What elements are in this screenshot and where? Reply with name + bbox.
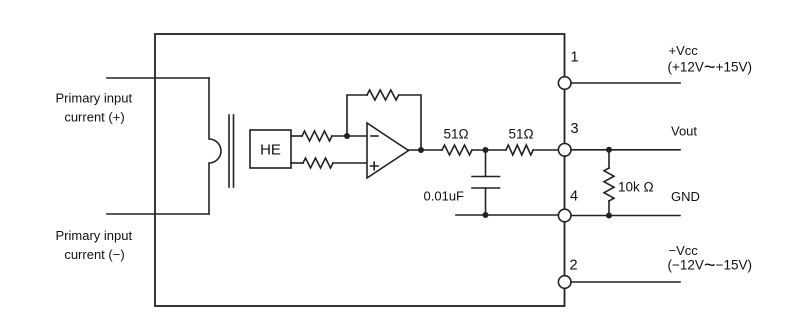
svg-text:+Vcc: +Vcc xyxy=(669,43,699,58)
resistor R6 10k xyxy=(604,168,614,201)
svg-text:1: 1 xyxy=(571,50,579,66)
node E junction xyxy=(606,147,612,153)
resistor R5 51ohm xyxy=(506,145,533,155)
module outline box xyxy=(155,34,565,306)
pin 4 terminal xyxy=(558,209,571,222)
resistor R2 xyxy=(302,131,332,141)
node B junction xyxy=(418,147,424,153)
wire -Vcc xyxy=(571,281,680,283)
svg-text:GND: GND xyxy=(671,189,700,204)
svg-text:Vout: Vout xyxy=(671,124,697,139)
wire feedback left xyxy=(347,95,367,136)
svg-text:HE: HE xyxy=(260,142,281,159)
wire HE to R3 xyxy=(291,162,303,164)
wire primary input (+) xyxy=(107,77,209,79)
svg-text:Primary input: Primary input xyxy=(56,228,133,243)
node F junction xyxy=(606,213,612,219)
svg-text:2: 2 xyxy=(570,258,578,274)
wire +Vcc xyxy=(571,82,680,84)
wire GND xyxy=(571,215,680,217)
capacitor C1 xyxy=(485,150,487,177)
primary winding L1 xyxy=(209,78,221,214)
resistor R4 51ohm xyxy=(442,145,472,155)
svg-text:51Ω: 51Ω xyxy=(443,127,468,142)
wire to R6 xyxy=(608,150,610,168)
resistor R1 feedback xyxy=(367,90,399,100)
svg-text:current (+): current (+) xyxy=(64,110,124,125)
svg-text:0.01uF: 0.01uF xyxy=(424,189,465,204)
pin 1 terminal xyxy=(558,77,571,90)
wire feedback right xyxy=(399,95,421,150)
wire R6 to GND rail xyxy=(608,201,610,216)
svg-text:−Vcc: −Vcc xyxy=(669,243,699,258)
svg-text:4: 4 xyxy=(570,189,578,205)
transformer core xyxy=(228,115,230,187)
hall element HE xyxy=(250,130,291,168)
wire R5 to pin 3 xyxy=(533,149,559,151)
wire HE to R2 xyxy=(291,135,302,137)
wire R4 to node C xyxy=(472,149,506,151)
svg-text:3: 3 xyxy=(571,121,579,137)
svg-text:10k Ω: 10k Ω xyxy=(618,180,654,195)
wire R2 to node A xyxy=(332,135,367,137)
wire capacitor to GND rail xyxy=(456,214,559,216)
node A junction xyxy=(344,133,350,139)
label primary input current (-) xyxy=(56,228,133,262)
pin 3 terminal xyxy=(558,144,571,157)
resistor R3 xyxy=(303,158,333,168)
wire primary input (-) xyxy=(107,213,209,215)
label primary input current (+) xyxy=(56,91,133,125)
node C junction xyxy=(483,147,489,153)
svg-text:Primary input: Primary input xyxy=(56,91,133,106)
wire op-amp output xyxy=(409,149,443,151)
pin 2 terminal xyxy=(558,276,571,289)
op-amp U1 xyxy=(367,123,409,178)
wire Vout xyxy=(571,149,680,151)
node D junction xyxy=(483,212,489,218)
svg-text:current (−): current (−) xyxy=(64,247,124,262)
wire R3 to op-amp xyxy=(333,162,367,164)
svg-text:51Ω: 51Ω xyxy=(508,127,533,142)
